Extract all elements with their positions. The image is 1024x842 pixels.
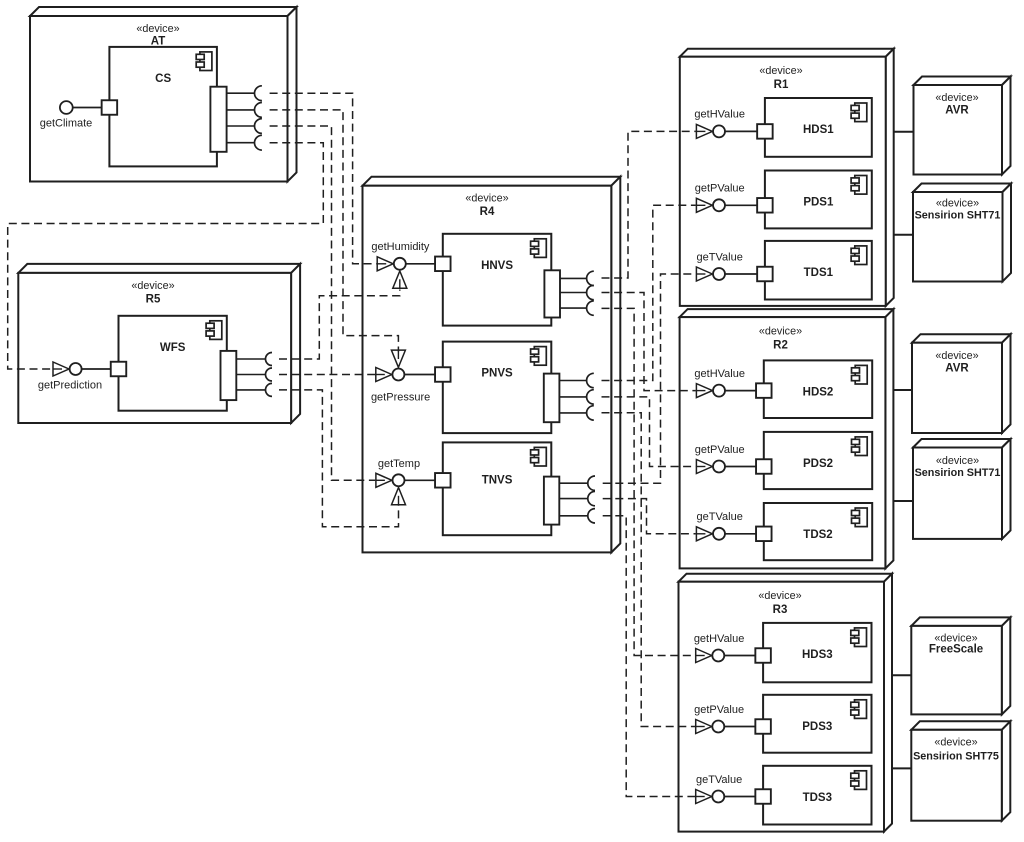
interface getPressure (PNVS): [371, 350, 451, 404]
component HDS2: [764, 360, 872, 418]
link R1 to Sensirion SHT71: [894, 234, 913, 236]
socket line PNVS s1: [559, 380, 586, 382]
svg-text:getTemp: getTemp: [378, 458, 420, 470]
svg-text:Sensirion SHT71: Sensirion SHT71: [915, 467, 1001, 479]
svg-text:R5: R5: [146, 293, 161, 305]
svg-text:PDS2: PDS2: [803, 458, 833, 470]
device AT 3d-box: [30, 7, 297, 182]
component TDS2: [764, 503, 872, 560]
component PDS3: [763, 695, 871, 753]
socket line CS s1: [227, 92, 255, 94]
socket line PNVS s2: [559, 396, 586, 398]
wire HNVS s2 to R2 getHValue: [602, 293, 696, 391]
svg-text:AVR: AVR: [945, 105, 969, 117]
wire TNVS s3 to R3 geTValue: [603, 516, 695, 797]
svg-text:getPressure: getPressure: [371, 392, 430, 404]
svg-text:R1: R1: [774, 79, 789, 91]
interface geTValue (TDS2): [696, 511, 771, 541]
svg-text:getPValue: getPValue: [695, 444, 745, 456]
svg-text:HNVS: HNVS: [481, 260, 513, 272]
socket line TNVS s3: [559, 515, 588, 517]
device R4 3d-box: [363, 177, 621, 553]
svg-text:getPrediction: getPrediction: [38, 379, 102, 391]
socket line CS s4: [227, 142, 255, 144]
socket line TNVS s1: [559, 482, 588, 484]
interface getHValue (HDS2): [694, 368, 771, 398]
wire CS s2 to R4 getPressure: [270, 110, 399, 352]
interface getTemp (TNVS): [376, 458, 451, 505]
svg-text:HDS2: HDS2: [803, 386, 834, 398]
svg-text:«device»: «device»: [935, 350, 978, 362]
svg-text:«device»: «device»: [131, 280, 174, 292]
svg-text:«device»: «device»: [759, 326, 802, 338]
port array TNVS: [544, 477, 559, 525]
svg-text:FreeScale: FreeScale: [929, 644, 983, 656]
component PNVS: [443, 342, 552, 434]
wire HNVS s1 to R1 getHValue: [602, 131, 696, 278]
interface getHValue (HDS1): [694, 109, 772, 139]
svg-text:Sensirion SHT75: Sensirion SHT75: [913, 750, 999, 762]
svg-text:geTValue: geTValue: [696, 774, 742, 786]
wire PNVS s2 to R2 getPValue: [602, 397, 696, 467]
wire TNVS s2 to R2 geTValue: [603, 499, 696, 534]
svg-text:R4: R4: [480, 206, 495, 218]
wire PNVS s3 to R3 getPValue: [602, 413, 696, 727]
device Sensirion SHT71 3d-box: [913, 184, 1011, 282]
link R3 to Sensirion SHT75: [892, 767, 911, 769]
interface getHValue (HDS3): [694, 633, 771, 663]
wire CS s1 to R4 getHumidity: [270, 93, 377, 264]
svg-text:PDS3: PDS3: [802, 721, 832, 733]
svg-text:«device»: «device»: [465, 193, 508, 205]
svg-text:getHValue: getHValue: [694, 633, 745, 645]
socket line CS s2: [227, 109, 255, 111]
wire CS s4 to R5 getPrediction: [8, 143, 324, 369]
svg-text:TNVS: TNVS: [482, 474, 513, 486]
link R2 to AVR: [893, 389, 912, 391]
socket line WFS s2: [236, 374, 265, 376]
svg-text:«device»: «device»: [136, 23, 179, 35]
link R2 to Sensirion SHT71: [893, 500, 913, 502]
svg-text:TDS3: TDS3: [803, 792, 832, 804]
socket line HNVS s2: [560, 292, 587, 294]
device Sensirion SHT75 3d-box: [911, 721, 1010, 820]
device R5 3d-box: [18, 264, 300, 423]
svg-text:«device»: «device»: [936, 455, 979, 467]
socket line WFS s1: [236, 358, 265, 360]
svg-text:PDS1: PDS1: [803, 197, 834, 209]
svg-text:«device»: «device»: [935, 92, 978, 104]
socket line TNVS s2: [559, 498, 588, 500]
interface getPrediction (WFS): [38, 362, 126, 392]
socket line WFS s3: [236, 389, 265, 391]
svg-text:TDS1: TDS1: [804, 267, 834, 279]
component HDS1: [765, 98, 872, 157]
device Sensirion SHT71 3d-box: [913, 439, 1011, 539]
device AVR 3d-box: [914, 77, 1011, 175]
device R1 3d-box: [680, 49, 894, 306]
link R3 to FreeScale: [892, 674, 911, 676]
port array WFS: [221, 351, 237, 400]
interface getPValue (PDS3): [694, 704, 771, 734]
interface getClimate (provided by CS): [40, 100, 117, 129]
svg-text:getHValue: getHValue: [694, 109, 745, 121]
component TDS1: [765, 241, 872, 300]
wire HNVS s3 to R3 getHValue: [602, 308, 696, 655]
wire WFS s2 to R4 getPressure left: [279, 374, 375, 376]
svg-text:HDS3: HDS3: [802, 649, 833, 661]
svg-text:«device»: «device»: [934, 736, 977, 748]
socket line HNVS s1: [560, 277, 587, 279]
link R1 to AVR: [894, 131, 914, 133]
wire WFS s3 to R4 getTemp bottom: [279, 390, 399, 527]
svg-text:TDS2: TDS2: [803, 529, 832, 541]
svg-text:geTValue: geTValue: [697, 251, 743, 263]
wire WFS s1 to R4 getHumidity bottom: [279, 290, 400, 360]
interface getPValue (PDS2): [695, 444, 772, 474]
wire CS s3 to R4 getTemp: [270, 126, 376, 480]
interface geTValue (TDS1): [696, 251, 772, 281]
svg-text:getPValue: getPValue: [695, 183, 745, 195]
component HDS3: [763, 623, 871, 682]
wire PNVS s1 to R1 getPValue: [602, 205, 696, 380]
svg-text:WFS: WFS: [160, 342, 186, 354]
component PDS1: [765, 171, 872, 229]
socket line HNVS s3: [560, 307, 587, 309]
svg-text:HDS1: HDS1: [803, 124, 834, 136]
svg-text:AT: AT: [151, 36, 165, 48]
svg-text:«device»: «device»: [759, 65, 802, 77]
device R3 3d-box: [679, 574, 893, 832]
component PDS2: [764, 432, 872, 489]
interface getHumidity (HNVS): [371, 241, 450, 288]
svg-text:getHValue: getHValue: [694, 368, 745, 380]
svg-text:AVR: AVR: [945, 363, 969, 375]
wire TNVS s1 to R1 geTValue: [603, 274, 696, 483]
interface getPValue (PDS1): [695, 183, 773, 213]
component CS: [109, 47, 216, 166]
socket line CS s3: [227, 125, 255, 127]
svg-text:getPValue: getPValue: [694, 704, 744, 716]
port array CS: [210, 87, 226, 152]
svg-text:CS: CS: [155, 73, 171, 85]
component TDS3: [763, 766, 871, 825]
port array PNVS: [544, 374, 560, 423]
svg-text:«device»: «device»: [758, 590, 801, 602]
device AVR 3d-box: [912, 334, 1011, 433]
svg-text:getClimate: getClimate: [40, 118, 93, 130]
svg-text:geTValue: geTValue: [697, 511, 743, 523]
svg-text:«device»: «device»: [936, 197, 979, 209]
component WFS: [119, 316, 227, 411]
port array HNVS: [544, 270, 560, 317]
interface geTValue (TDS3): [696, 774, 771, 804]
svg-text:getHumidity: getHumidity: [371, 241, 430, 253]
socket line PNVS s3: [559, 412, 586, 414]
svg-text:Sensirion SHT71: Sensirion SHT71: [915, 210, 1001, 222]
component TNVS: [443, 442, 552, 535]
device FreeScale 3d-box: [911, 617, 1010, 714]
component HNVS: [443, 234, 552, 326]
svg-text:R2: R2: [773, 339, 788, 351]
device R2 3d-box: [680, 309, 894, 568]
svg-text:R3: R3: [773, 604, 788, 616]
svg-text:PNVS: PNVS: [481, 368, 513, 380]
